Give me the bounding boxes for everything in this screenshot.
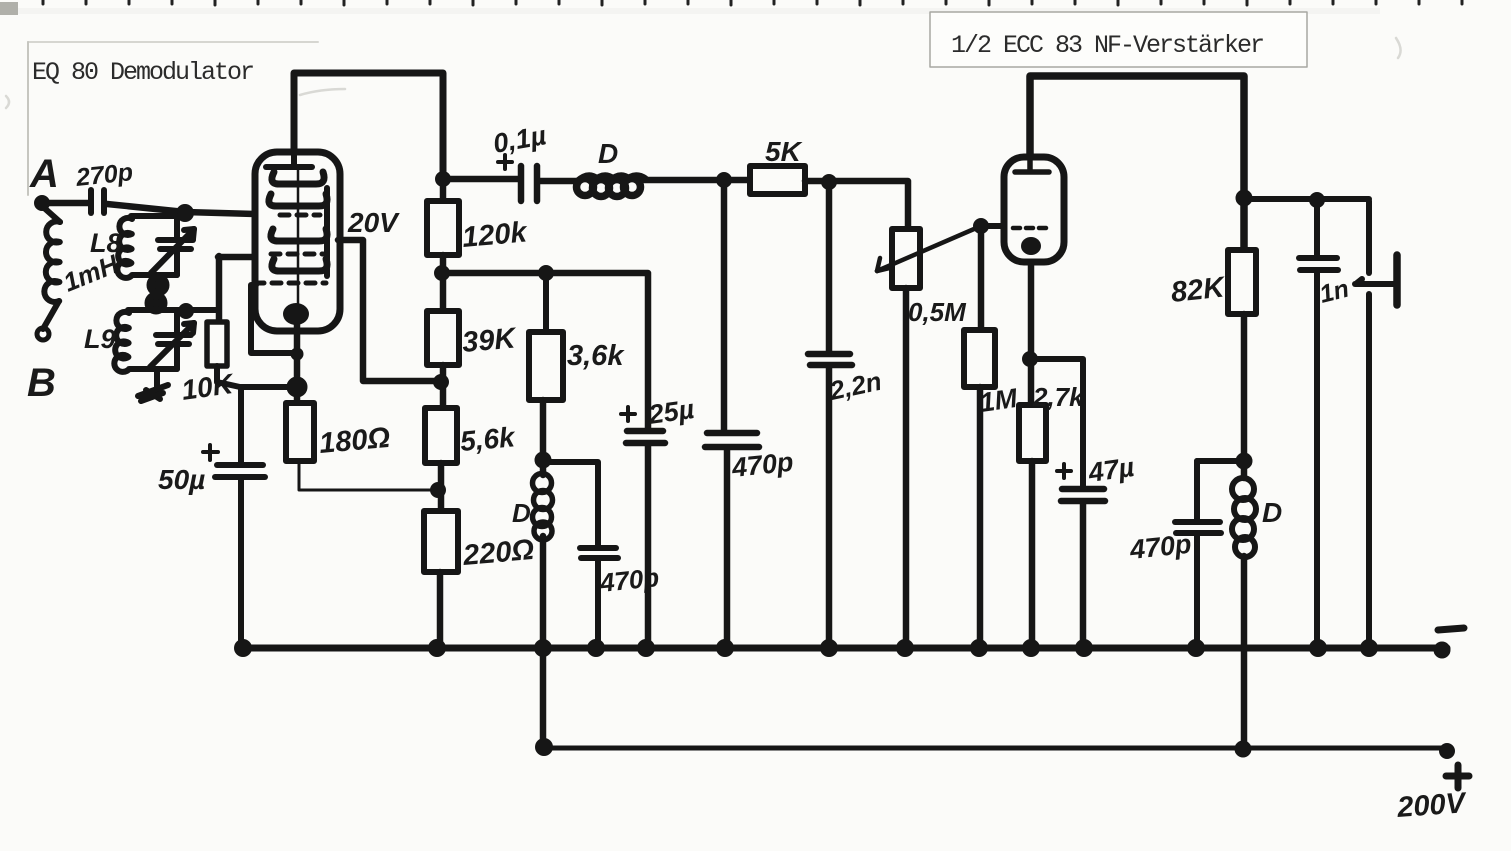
label 47u [1086, 452, 1137, 488]
capacitor 470p decoupling [1175, 522, 1221, 648]
wire 470p decoupling tap [1197, 461, 1244, 520]
potentiometer 0,5M [892, 229, 920, 288]
wire main signal line top [443, 176, 519, 183]
wire D mid to bus and 200V [540, 536, 547, 747]
resistor 220R [424, 511, 458, 572]
wire top loop EQ80 anode [294, 73, 443, 176]
capacitor 470p IF [705, 180, 759, 648]
node junction anode wire [436, 172, 451, 187]
resistor 82K [1228, 250, 1256, 314]
svg-text:470p: 470p [1127, 529, 1192, 565]
inductor 1mH [42, 206, 60, 329]
node junction cathode [1023, 352, 1038, 367]
title box 1/2 ECC 83 NF-Verstärker [930, 12, 1307, 67]
wire 5,6k to 220R [438, 463, 445, 511]
label D top [598, 138, 618, 169]
label 50u [158, 464, 205, 495]
label 220R [461, 534, 536, 572]
wire 220R to bus [437, 572, 444, 648]
node A terminal [35, 196, 50, 211]
wire output to bus [1366, 294, 1372, 648]
svg-text:50µ: 50µ [158, 464, 205, 495]
svg-text:1/2 ECC 83 NF-Verstärker: 1/2 ECC 83 NF-Verstärker [951, 31, 1263, 60]
node junction 20V [434, 375, 449, 390]
wire ECC83 anode up and right [1030, 76, 1244, 250]
tube EQ80 dashed grid row 2 [271, 252, 323, 257]
node bus 47u [1076, 640, 1093, 657]
wire anode to output caps [1244, 196, 1369, 202]
node bus 1M [971, 640, 988, 657]
wire 180R bottom link [299, 461, 437, 490]
capacitor 2,2n [808, 182, 852, 648]
wire grid junction to tube [981, 223, 1006, 229]
svg-text:200V: 200V [1395, 787, 1468, 824]
svg-text:5K: 5K [765, 136, 803, 167]
node bus 470p dec [1188, 640, 1205, 657]
label 270p [74, 158, 135, 192]
label 0,1u [491, 120, 549, 159]
wire cathode down [294, 324, 301, 403]
label 39K [461, 322, 519, 359]
node bus 2,7k [1023, 640, 1040, 657]
node junction 180R link [431, 483, 446, 498]
inductor D output choke [1232, 478, 1256, 557]
node junction ECC83 grid [974, 219, 989, 234]
label plus 47u [1057, 464, 1071, 478]
tube EQ80 dashed grid row 3 [255, 281, 326, 286]
svg-text:25µ: 25µ [646, 394, 697, 430]
capacitor 470p mid [580, 548, 618, 648]
svg-text:270p: 270p [74, 158, 135, 192]
capacitor 0,1u [521, 166, 537, 201]
label plus 25u [621, 407, 635, 421]
label plus 50u [203, 445, 218, 460]
label 3,6k [567, 340, 625, 372]
node bus 220R [429, 640, 446, 657]
resistor 39K [427, 311, 459, 365]
svg-text:82K: 82K [1169, 271, 1227, 309]
label D output [1262, 497, 1282, 528]
tube EQ80 cathode dot [283, 303, 309, 325]
node junction anode output [1236, 190, 1252, 206]
label 20V [347, 207, 400, 238]
scan edge band top [0, 2, 1380, 15]
node 200V corner [536, 739, 553, 756]
label 82K [1169, 271, 1227, 309]
resistor 3,6k [529, 273, 563, 400]
svg-text:A: A [29, 152, 59, 196]
tube EQ80 grid hooks row 4 [272, 259, 327, 271]
wire 82k down [1241, 314, 1248, 478]
tube EQ80 grid hooks row 2 [269, 194, 327, 206]
node bus 470p mid [588, 640, 605, 657]
trimmer capacitor L9 tank [150, 310, 194, 369]
svg-text:B: B [27, 361, 56, 405]
svg-text:220Ω: 220Ω [461, 534, 536, 572]
wire 39k to 5,6k [440, 365, 447, 408]
output jack plate [1355, 279, 1394, 284]
wire L8 link to L9 [148, 277, 166, 311]
wire 270p to tube grid1 [107, 204, 256, 214]
label D mid [512, 498, 531, 528]
node junction below 120k [435, 266, 450, 281]
node bus D mid [535, 640, 552, 657]
faint frame around EQ80 title [28, 42, 318, 195]
capacitor 1n [1299, 200, 1338, 648]
tube EQ80 anode plate [266, 152, 312, 167]
svg-text:5,6k: 5,6k [459, 421, 517, 457]
inductor L9 tank coil [114, 310, 219, 372]
label B [27, 361, 56, 405]
node cathode junction to 50u [287, 377, 307, 397]
resistor 2,7k [1019, 405, 1046, 461]
wire 3,6k to coil D mid [540, 400, 547, 475]
node junction decoupling [1236, 453, 1252, 469]
svg-text:39K: 39K [461, 322, 519, 359]
tube EQ80 inner bar right [324, 188, 330, 276]
wire choke to 200V line [1241, 556, 1248, 748]
label 25u [646, 394, 697, 430]
capacitor 25u electrolytic [626, 431, 665, 648]
wire 120k junction to 25u [443, 273, 648, 429]
svg-text:D: D [1262, 497, 1282, 528]
node bus 470p IF [717, 640, 734, 657]
wire anode chain vertical [440, 176, 447, 203]
node 200V end [1440, 744, 1455, 759]
svg-text:L9: L9 [84, 324, 116, 354]
label 470p IF [729, 447, 794, 483]
wire 10k bottom to 50u corner [217, 366, 240, 387]
capacitor 47u electrolytic [1061, 489, 1105, 648]
inductor D mid [533, 474, 553, 541]
title EQ 80 Demodulator [32, 58, 253, 87]
tube ECC83 anode plate [1015, 157, 1049, 172]
output jack coupling [1366, 201, 1372, 273]
capacitor 270p [91, 190, 104, 213]
scan smudges [6, 38, 1401, 108]
resistor 5k horizontal [750, 166, 805, 194]
svg-text:0,1µ: 0,1µ [491, 120, 549, 159]
tube ECC83 cathode dot [1021, 237, 1041, 255]
tube EQ80 grid hooks row 3 [271, 229, 327, 241]
tube EQ80 dashed grid row 1 [280, 213, 320, 218]
svg-text:20V: 20V [347, 207, 400, 238]
label minus [1438, 628, 1464, 630]
svg-text:180Ω: 180Ω [318, 422, 392, 460]
inductor L8 tank coil [117, 216, 177, 278]
output jack bar [1393, 255, 1401, 305]
node junction D mid top [535, 452, 551, 468]
wire A to 270p [42, 200, 88, 207]
tube EQ80 grid hooks row 1 [272, 172, 324, 184]
potentiometer wiper arrow [877, 226, 981, 271]
node bus output [1361, 640, 1378, 657]
label L9 [84, 324, 116, 354]
label 200V [1395, 787, 1468, 824]
wire coil D to 5k [644, 177, 750, 184]
wire 200V supply line [543, 746, 1449, 751]
node junction 2,2n tap [822, 175, 837, 190]
label 2,7k [1032, 382, 1085, 412]
resistor 180R [286, 403, 314, 461]
svg-text:D: D [598, 138, 618, 169]
label plus 200V [1446, 765, 1469, 788]
svg-text:1n: 1n [1317, 275, 1352, 309]
node bus 2,2n [821, 640, 838, 657]
svg-text:47µ: 47µ [1086, 452, 1137, 488]
label 120k [461, 216, 530, 254]
svg-text:L8: L8 [90, 228, 122, 258]
label 470p mid [597, 562, 660, 598]
label plus 0,1u [498, 155, 512, 169]
node bus pot [897, 640, 914, 657]
node B terminal [37, 328, 49, 340]
wire 50u top horizontal [240, 384, 295, 390]
resistor 5,6k [425, 408, 457, 463]
label 10K [180, 368, 237, 406]
label 1M [978, 383, 1020, 418]
node bus end [1434, 642, 1450, 658]
svg-text:1M: 1M [978, 383, 1020, 418]
wire 1M to bus [977, 387, 984, 648]
svg-text:0,5M: 0,5M [908, 297, 967, 327]
tube ECC83 dashed grid [1013, 226, 1052, 231]
node junction A-wire / L8 top [177, 205, 194, 222]
svg-text:470p: 470p [729, 447, 794, 483]
wire 5k to pot corner [805, 181, 908, 229]
wire 2,7k to bus [1029, 461, 1036, 648]
label 470p decoupling [1127, 529, 1192, 565]
wire L9 top to grid wire vertical [218, 256, 258, 322]
node bus 1n [1310, 640, 1327, 657]
label 0,5M [908, 297, 967, 327]
node 200V choke [1235, 741, 1251, 757]
wire 0,1u to coil D [539, 178, 578, 185]
resistor 1M [964, 330, 995, 387]
label 5K [765, 136, 803, 167]
capacitor 50u electrolytic [215, 387, 265, 648]
svg-text:EQ 80 Demodulator: EQ 80 Demodulator [32, 58, 253, 87]
label 5,6k [459, 421, 517, 457]
node junction 470p tap [717, 173, 732, 188]
wire ground bus minus [238, 645, 1447, 652]
node junction 3,6k top [539, 266, 554, 281]
label 180R [318, 422, 392, 460]
svg-text:D: D [512, 498, 531, 528]
node bus 50u [235, 640, 252, 657]
label 1mH [59, 248, 124, 297]
resistor 120k [427, 201, 459, 255]
tube ECC83 envelope [1004, 157, 1064, 262]
inductor D top [577, 176, 646, 196]
wire 120k to 39k [440, 255, 447, 311]
wire ECC83 cathode down [1028, 262, 1035, 405]
svg-text:3,6k: 3,6k [567, 340, 625, 372]
svg-text:2,2n: 2,2n [826, 366, 884, 406]
trimmer capacitor L8 tank [151, 216, 194, 275]
wire grid junction to 1M [978, 226, 985, 330]
node bus 25u [638, 640, 655, 657]
wire grid3 to cathode hook [251, 285, 296, 353]
label 1n [1317, 275, 1352, 309]
wire EQ80 g2 to 20V point [338, 240, 437, 381]
node junction L9 top [179, 304, 194, 319]
wire 470p mid tap [546, 462, 598, 546]
ground stub below L9 [138, 369, 168, 401]
label 2,2n [826, 366, 884, 406]
scan ruler ticks top [43, 0, 1462, 5]
wire pot to bus [903, 288, 910, 648]
tube EQ80 center electrode line [297, 170, 300, 306]
node junction 1n tap [1310, 193, 1325, 208]
label L8 [90, 228, 122, 258]
wire cathode to 47u [1030, 359, 1083, 487]
svg-text:2,7k: 2,7k [1032, 382, 1085, 412]
node cathode-grid junction [291, 348, 303, 360]
svg-text:120k: 120k [461, 216, 530, 254]
tube EQ80 envelope [255, 152, 340, 331]
resistor 10k [207, 322, 227, 366]
label A [29, 152, 59, 196]
